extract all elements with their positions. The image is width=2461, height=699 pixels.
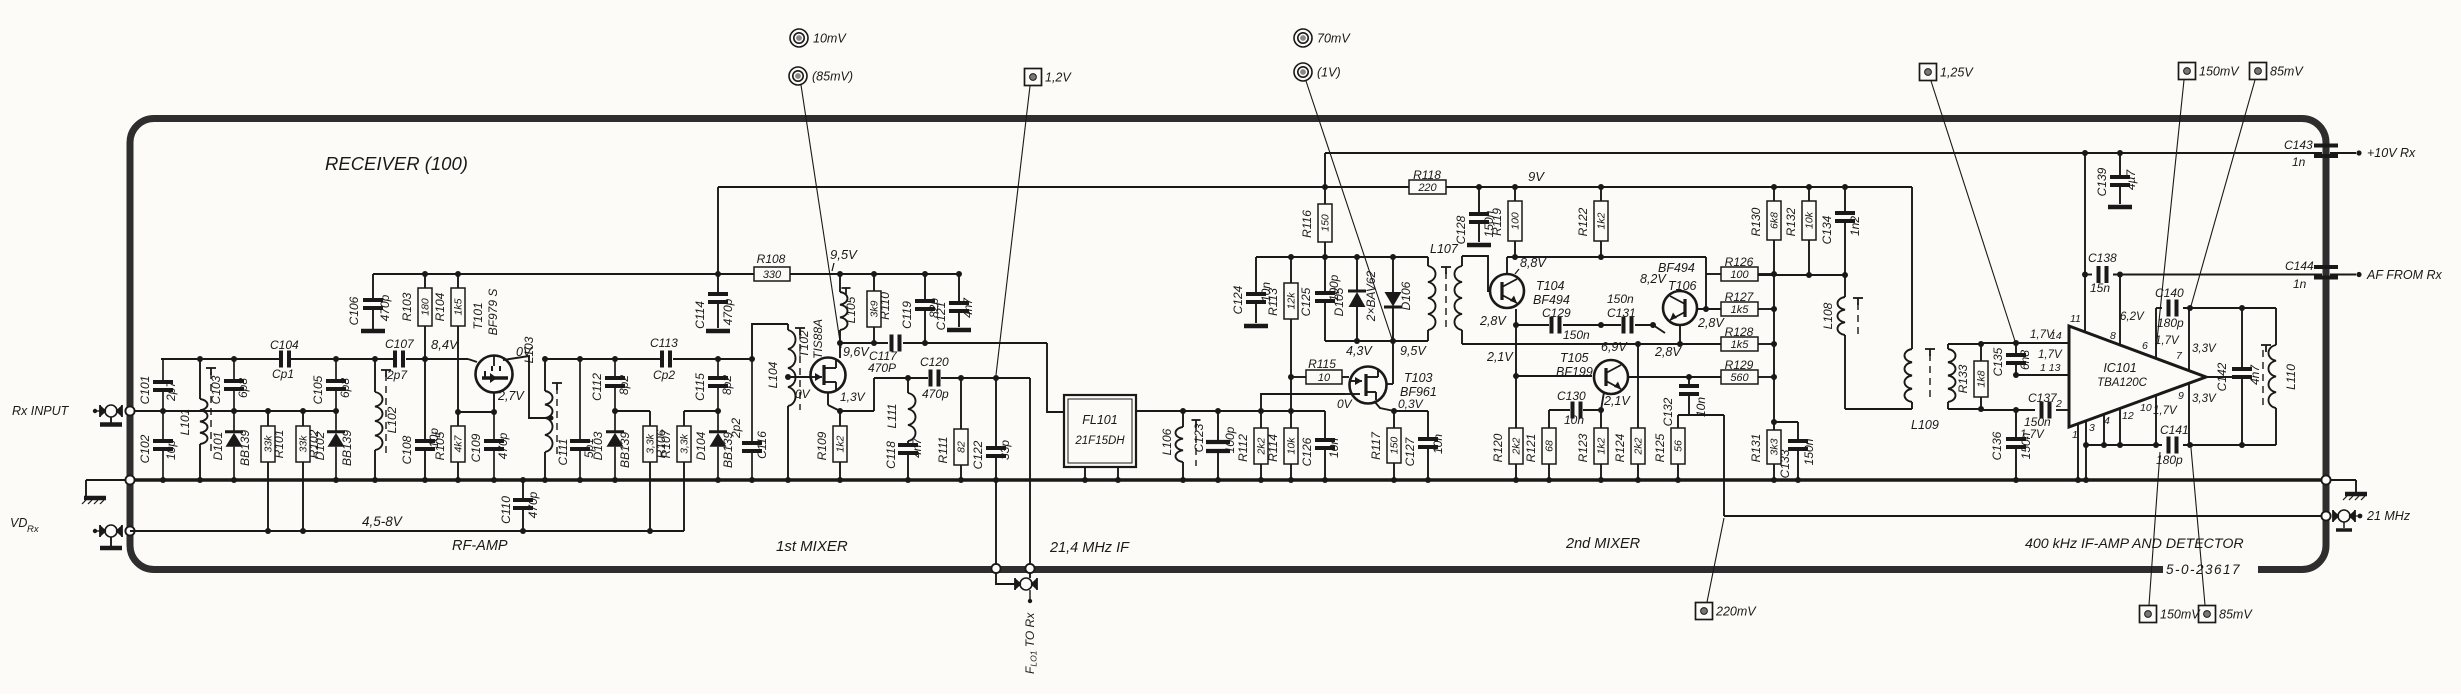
- svg-text:D103: D103: [591, 431, 605, 460]
- svg-text:8,4V: 8,4V: [431, 337, 459, 352]
- svg-text:470p: 470p: [496, 432, 510, 459]
- svg-text:BF199: BF199: [1556, 365, 1593, 379]
- capacitor C137: [2024, 391, 2058, 429]
- capacitor C122: [971, 378, 1012, 480]
- svg-text:L101: L101: [178, 409, 192, 436]
- svg-text:2k2: 2k2: [1511, 437, 1523, 455]
- svg-text:1,7V: 1,7V: [2153, 405, 2178, 417]
- callout line 85mV to T102: [801, 85, 841, 348]
- diode D105: [1332, 257, 1366, 341]
- svg-text:R130: R130: [1749, 207, 1763, 236]
- capacitor C134: [1820, 187, 1862, 275]
- resistor R105: [433, 412, 465, 480]
- capacitor C117: [868, 335, 900, 376]
- svg-text:12k: 12k: [1286, 292, 1298, 310]
- resistor R121: [1524, 428, 1556, 480]
- svg-text:R113: R113: [1266, 288, 1280, 316]
- terminal AF FROM Rx: [2330, 268, 2443, 282]
- svg-text:1,7V: 1,7V: [2155, 335, 2180, 347]
- wire AGC 21MHz line: [1678, 415, 2322, 516]
- svg-text:C137: C137: [2028, 391, 2058, 405]
- junction dots right: [2013, 150, 2245, 483]
- svg-text:BB139: BB139: [238, 430, 252, 466]
- callout line 150mV bottom: [2149, 452, 2160, 605]
- transistor T101: [471, 289, 533, 403]
- svg-text:D104: D104: [694, 431, 708, 460]
- callout line 85mV top: [2191, 80, 2255, 306]
- svg-text:82: 82: [956, 441, 968, 453]
- svg-text:AF FROM Rx: AF FROM Rx: [2366, 268, 2443, 282]
- svg-text:TIS88A: TIS88A: [811, 319, 825, 359]
- svg-text:C109: C109: [469, 433, 483, 462]
- svg-text:10mV: 10mV: [813, 32, 847, 46]
- svg-text:6n8: 6n8: [2018, 350, 2032, 370]
- capacitor C139: [2095, 153, 2138, 207]
- resistor R115: [1291, 357, 1349, 384]
- svg-text:R128: R128: [1725, 325, 1754, 339]
- terminal ground right: [2321, 475, 2367, 500]
- svg-text:L110: L110: [2284, 364, 2298, 390]
- svg-text:R120: R120: [1491, 433, 1505, 462]
- svg-text:C136: C136: [1990, 431, 2004, 460]
- svg-text:IC101: IC101: [2103, 361, 2136, 375]
- svg-text:R114: R114: [1266, 434, 1280, 462]
- svg-text:2,8V: 2,8V: [1479, 314, 1507, 328]
- svg-text:5-0-23617: 5-0-23617: [2166, 562, 2241, 577]
- capacitor C130: [1549, 389, 1601, 428]
- svg-text:4n7: 4n7: [2248, 364, 2262, 385]
- svg-text:R108: R108: [757, 252, 786, 266]
- wire 2.8V row from L107: [1484, 343, 1721, 345]
- svg-text:6: 6: [2142, 340, 2148, 352]
- svg-text:R116: R116: [1300, 210, 1314, 238]
- transformer L109: [1845, 187, 1981, 432]
- resistor R120: [1491, 428, 1523, 480]
- node Rx input wire: [130, 410, 336, 412]
- inductor L108: [1821, 275, 1863, 409]
- svg-text:150: 150: [1320, 214, 1332, 232]
- svg-text:RF-AMP: RF-AMP: [452, 538, 508, 554]
- svg-text:BB139: BB139: [618, 432, 632, 468]
- svg-text:D102: D102: [313, 431, 327, 460]
- wire T104 emitter node: [1516, 309, 1592, 428]
- svg-text:330: 330: [763, 269, 782, 281]
- svg-text:C113: C113: [650, 336, 678, 350]
- svg-text:2p7: 2p7: [164, 380, 178, 402]
- label 2nd MIXER: [1565, 536, 1641, 552]
- svg-text:1,25V: 1,25V: [1940, 66, 1974, 80]
- svg-text:6k8: 6k8: [1769, 212, 1781, 229]
- resistor R117: [1369, 411, 1401, 480]
- callout line 85mV bottom: [2191, 448, 2205, 605]
- svg-text:9,5V: 9,5V: [1400, 344, 1427, 358]
- resistor R107: [659, 411, 691, 531]
- capacitor C114: [693, 274, 735, 331]
- capacitor C107: [385, 337, 415, 382]
- test point 1.2V: [1025, 69, 1073, 86]
- capacitor C108: [400, 359, 441, 480]
- wire LO tap to connector: [996, 378, 1030, 584]
- terminal 21MHz: [2321, 509, 2410, 530]
- svg-text:1k2: 1k2: [1596, 437, 1608, 454]
- test point 85mV top: [2250, 63, 2305, 80]
- ic IC101 TBA120C: [2069, 326, 2206, 427]
- svg-text:10n: 10n: [1694, 397, 1708, 417]
- title RECEIVER (100): [325, 153, 468, 174]
- wire pin1 13 row: [2016, 374, 2069, 376]
- svg-text:1,2V: 1,2V: [1045, 71, 1072, 85]
- capacitor C106: [347, 274, 392, 331]
- wire 21.4MHz IF feed to FL101: [925, 343, 1064, 412]
- capacitor C121: [934, 274, 975, 330]
- svg-text:33p: 33p: [998, 440, 1012, 460]
- svg-text:R123: R123: [1576, 433, 1590, 462]
- svg-text:180: 180: [420, 298, 432, 316]
- wire T105 collector row: [1628, 376, 1721, 378]
- test point 150mV top: [2179, 63, 2241, 80]
- svg-text:R129: R129: [1725, 358, 1754, 372]
- svg-text:11: 11: [2070, 313, 2081, 325]
- svg-text:8p2: 8p2: [617, 375, 631, 395]
- svg-text:R103: R103: [400, 292, 414, 321]
- ic pin labels: [2020, 311, 2184, 441]
- svg-text:10n: 10n: [1431, 434, 1445, 454]
- svg-text:C110: C110: [499, 496, 513, 524]
- resistor R127: [1697, 290, 1774, 316]
- wire pin8 drop: [2119, 275, 2121, 347]
- capacitor C123: [1192, 411, 1238, 480]
- svg-text:150mV: 150mV: [2160, 608, 2201, 622]
- filter FL101: [1064, 395, 1136, 480]
- svg-text:1 13: 1 13: [2040, 362, 2061, 374]
- svg-text:100p: 100p: [1223, 426, 1237, 453]
- svg-text:R119: R119: [1490, 208, 1504, 236]
- diode D102: [313, 411, 354, 480]
- svg-text:2,7V: 2,7V: [497, 389, 525, 403]
- wire right bias bus: [1758, 274, 1845, 422]
- svg-text:D106: D106: [1399, 281, 1413, 310]
- svg-text:C118: C118: [884, 441, 898, 469]
- svg-text:150n: 150n: [1607, 292, 1634, 306]
- capacitor C101: [138, 359, 178, 411]
- capacitor C141: [2153, 393, 2217, 467]
- diode D103: [591, 411, 632, 480]
- ground bus wire: [130, 478, 2326, 481]
- svg-text:C106: C106: [347, 296, 361, 325]
- svg-text:C121: C121: [934, 302, 948, 331]
- svg-text:1n2: 1n2: [1848, 216, 1862, 236]
- svg-text:R125: R125: [1653, 433, 1667, 462]
- svg-text:R107: R107: [659, 428, 673, 458]
- capacitor C118: [884, 437, 924, 480]
- capacitor C113: [650, 336, 678, 382]
- svg-text:3: 3: [2089, 422, 2095, 434]
- svg-text:560: 560: [1730, 372, 1749, 384]
- svg-text:C125: C125: [1299, 287, 1313, 316]
- capacitor C131: [1607, 292, 1636, 334]
- svg-text:10: 10: [2140, 402, 2152, 414]
- svg-text:R133: R133: [1956, 364, 1970, 393]
- svg-text:1,7V: 1,7V: [2038, 349, 2063, 361]
- resistor R130: [1749, 187, 1781, 274]
- svg-text:R126: R126: [1725, 255, 1754, 269]
- svg-text:3,3V: 3,3V: [2192, 343, 2217, 355]
- wire AF row C138: [2085, 274, 2322, 276]
- resistor R124: [1613, 344, 1645, 480]
- svg-text:Rx: Rx: [27, 524, 40, 535]
- svg-text:12: 12: [2122, 410, 2134, 422]
- capacitor C110: [499, 480, 540, 531]
- resistor R101: [261, 411, 286, 531]
- inductor L105: [840, 274, 858, 343]
- svg-text:3,3V: 3,3V: [2192, 393, 2217, 405]
- svg-text:T104: T104: [1536, 279, 1565, 293]
- svg-text:10n: 10n: [1564, 413, 1584, 427]
- svg-text:Cp1: Cp1: [272, 367, 294, 381]
- inductor L102: [375, 359, 399, 480]
- svg-text:4,5-8V: 4,5-8V: [362, 514, 404, 529]
- capacitor C120: [920, 355, 949, 401]
- capacitor C127: [1403, 411, 1445, 480]
- svg-text:L109: L109: [1911, 418, 1939, 432]
- svg-text:C119: C119: [900, 301, 914, 329]
- svg-text:R104: R104: [433, 292, 447, 321]
- svg-text:2k2: 2k2: [1633, 437, 1645, 455]
- capacitor C129: [1542, 306, 1590, 342]
- svg-text:85mV: 85mV: [2270, 65, 2304, 79]
- wire D106 to T103 drain: [1387, 341, 1393, 384]
- svg-text:8: 8: [2110, 330, 2116, 342]
- svg-text:C123: C123: [1192, 423, 1206, 452]
- svg-text:2,8V: 2,8V: [1654, 345, 1682, 359]
- wire T102 drain: [839, 343, 841, 358]
- wire mixer bias row: [1256, 256, 1428, 258]
- svg-text:15n: 15n: [2090, 281, 2110, 295]
- svg-text:Rx INPUT: Rx INPUT: [12, 404, 70, 418]
- svg-text:D101: D101: [211, 432, 225, 461]
- capacitor C103: [209, 359, 250, 411]
- svg-text:T102: T102: [797, 330, 811, 358]
- svg-text:Cp2: Cp2: [653, 368, 675, 382]
- svg-text:4n7: 4n7: [961, 297, 975, 318]
- svg-text:L105: L105: [844, 296, 858, 323]
- svg-text:(1V): (1V): [1317, 66, 1341, 80]
- diode D101: [211, 411, 252, 480]
- capacitor C124: [1231, 257, 1273, 326]
- capacitor C143 feedthrough: [2284, 138, 2338, 169]
- terminal +10V Rx: [2330, 146, 2416, 160]
- svg-text:C135: C135: [1991, 347, 2005, 376]
- svg-text:21F15DH: 21F15DH: [1074, 435, 1125, 447]
- resistor R125: [1653, 428, 1685, 480]
- capacitor C119: [900, 274, 941, 343]
- label 1st MIXER: [776, 538, 848, 555]
- test point 150mV bottom: [2140, 606, 2202, 623]
- svg-text:1n: 1n: [2293, 277, 2307, 291]
- wire 9.5V feed rail left: [373, 247, 959, 274]
- svg-text:1n: 1n: [2292, 155, 2306, 169]
- svg-text:1: 1: [2072, 429, 2078, 441]
- resistor R118: [1409, 168, 1446, 194]
- wire T105 emitter: [1601, 392, 1604, 410]
- label 21.4 MHz IF: [1049, 540, 1130, 556]
- transformer L107: [1428, 242, 1490, 344]
- svg-text:220mV: 220mV: [1715, 605, 1757, 619]
- inductor L106: [1160, 411, 1183, 480]
- diode D104: [694, 411, 735, 480]
- svg-text:100: 100: [1730, 269, 1749, 281]
- svg-text:C129: C129: [1542, 306, 1571, 320]
- callout line 150mV top: [2156, 80, 2184, 350]
- svg-text:70mV: 70mV: [1317, 32, 1351, 46]
- test point 85mV bottom: [2199, 606, 2254, 623]
- callout line 220mV: [1707, 518, 1724, 602]
- test point (85mV): [789, 67, 853, 85]
- connector FL01 to Rx: [991, 564, 1038, 674]
- svg-text:470p: 470p: [378, 294, 392, 321]
- svg-text:1,7V: 1,7V: [2030, 329, 2055, 341]
- capacitor C138: [2088, 251, 2117, 295]
- svg-text:85mV: 85mV: [2219, 608, 2253, 622]
- wire LO injection line: [874, 377, 1030, 379]
- resistor R129: [1721, 358, 1774, 384]
- resistor R119: [1490, 187, 1522, 257]
- wire rail T101 to mixer: [545, 358, 752, 360]
- resistor R106: [643, 411, 668, 531]
- svg-text:L108: L108: [1821, 302, 1835, 329]
- svg-text:3,3k: 3,3k: [679, 433, 691, 454]
- svg-text:L102: L102: [385, 406, 399, 433]
- svg-text:C144: C144: [2285, 259, 2314, 273]
- svg-text:C101: C101: [138, 376, 152, 405]
- capacitor C132: [1661, 377, 1708, 426]
- svg-text:220: 220: [1417, 182, 1437, 194]
- callout line 1V: [1306, 81, 1392, 339]
- svg-text:1,3V: 1,3V: [840, 390, 866, 404]
- svg-text:C140: C140: [2155, 286, 2184, 300]
- svg-text:10p: 10p: [164, 440, 178, 460]
- svg-text:+10V Rx: +10V Rx: [2367, 146, 2416, 160]
- svg-text:C139: C139: [2095, 167, 2109, 196]
- transistor T102: [795, 319, 870, 404]
- svg-text:6,9V: 6,9V: [1601, 340, 1628, 354]
- capacitor C133: [1774, 422, 1816, 480]
- svg-text:C126: C126: [1300, 437, 1314, 466]
- transistor T105: [1486, 340, 1682, 408]
- svg-text:R132: R132: [1784, 207, 1798, 236]
- svg-text:R110: R110: [878, 292, 892, 320]
- capacitor C104: [270, 338, 299, 381]
- svg-text:1k2: 1k2: [835, 435, 847, 452]
- svg-text:R131: R131: [1749, 434, 1763, 463]
- svg-text:8,8V: 8,8V: [1520, 256, 1547, 270]
- resistor R114: [1266, 411, 1298, 480]
- svg-text:C133: C133: [1778, 449, 1792, 478]
- svg-text:C130: C130: [1557, 389, 1586, 403]
- svg-text:6p8: 6p8: [236, 378, 250, 398]
- svg-text:56: 56: [1673, 440, 1685, 452]
- svg-text:2×BAV62: 2×BAV62: [1364, 270, 1378, 322]
- svg-text:10k: 10k: [1804, 211, 1816, 229]
- svg-text:TBA120C: TBA120C: [2097, 377, 2148, 389]
- svg-text:C102: C102: [138, 434, 152, 463]
- svg-text:6p8: 6p8: [338, 378, 352, 398]
- svg-text:1st MIXER: 1st MIXER: [776, 538, 848, 555]
- capacitor C102: [138, 411, 178, 480]
- svg-text:2p7: 2p7: [386, 368, 408, 382]
- svg-text:R109: R109: [815, 431, 829, 460]
- resistor R128: [1721, 325, 1774, 351]
- resistor R133: [1956, 344, 1988, 409]
- wire RF signal rail: [161, 359, 477, 362]
- svg-text:R115: R115: [1308, 357, 1336, 371]
- svg-text:R118: R118: [1413, 168, 1441, 182]
- svg-text:FL101: FL101: [1082, 413, 1117, 427]
- junction dots RF section: [160, 271, 755, 534]
- svg-text:C128: C128: [1454, 215, 1468, 244]
- svg-text:9: 9: [2178, 390, 2184, 402]
- svg-text:4k7: 4k7: [453, 434, 465, 452]
- svg-text:470p: 470p: [721, 298, 735, 325]
- svg-text:150: 150: [1389, 437, 1401, 455]
- svg-text:0V: 0V: [1337, 397, 1353, 411]
- transistor T104: [1479, 256, 1570, 328]
- inductor L101: [178, 359, 216, 480]
- svg-text:2: 2: [2055, 398, 2062, 410]
- svg-text:6,2V: 6,2V: [2120, 311, 2145, 323]
- wire T103 source: [1374, 401, 1428, 411]
- svg-text:C103: C103: [209, 375, 223, 404]
- svg-text:C142: C142: [2215, 362, 2229, 391]
- svg-text:10n: 10n: [1327, 438, 1341, 458]
- svg-text:C131: C131: [1607, 306, 1636, 320]
- svg-text:1k5: 1k5: [453, 298, 465, 315]
- svg-text:C132: C132: [1661, 397, 1675, 426]
- label drawing number 5-0-23617: [2166, 562, 2241, 577]
- capacitor C144 feedthrough: [2285, 259, 2338, 291]
- resistor R103: [400, 274, 432, 359]
- svg-text:C124: C124: [1231, 285, 1245, 314]
- inductor L110: [2261, 308, 2298, 445]
- svg-text:T105: T105: [1560, 351, 1589, 365]
- wire T103 gate2 feed: [1261, 394, 1345, 411]
- wire T101 drain to L103 tap: [503, 356, 546, 418]
- wire T101 source node: [458, 393, 494, 412]
- svg-text:(85mV): (85mV): [812, 70, 853, 84]
- svg-text:C105: C105: [311, 375, 325, 404]
- wire FL101 output row: [1136, 410, 1325, 412]
- svg-text:R121: R121: [1524, 434, 1538, 463]
- svg-text:1,7V: 1,7V: [2020, 429, 2045, 441]
- svg-text:8p2: 8p2: [720, 375, 734, 395]
- wire tank bottom row: [2078, 395, 2276, 480]
- wire T102 source: [828, 378, 874, 411]
- svg-text:C143: C143: [2284, 138, 2313, 152]
- svg-text:R124: R124: [1613, 433, 1627, 462]
- svg-text:R122: R122: [1576, 207, 1590, 236]
- svg-text:C111: C111: [556, 439, 570, 466]
- svg-text:T101: T101: [471, 302, 485, 329]
- svg-text:8,2V: 8,2V: [1640, 272, 1667, 286]
- svg-text:L106: L106: [1160, 428, 1174, 455]
- wire IC output: [2206, 376, 2242, 378]
- capacitor C111: [556, 359, 596, 480]
- resistor R110: [867, 274, 892, 343]
- svg-text:400 kHz IF-AMP AND DETECTOR: 400 kHz IF-AMP AND DETECTOR: [2025, 536, 2244, 552]
- svg-text:2,1V: 2,1V: [1603, 394, 1631, 408]
- svg-text:4µ7: 4µ7: [2124, 169, 2138, 191]
- svg-text:21 MHz: 21 MHz: [2366, 509, 2411, 523]
